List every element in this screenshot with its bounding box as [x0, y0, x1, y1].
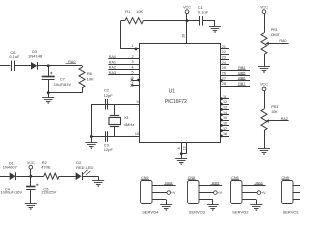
ground under C7	[42, 93, 54, 104]
pin 14 stub	[220, 111, 229, 116]
svg-text:10: 10	[135, 132, 139, 136]
node junction VCC/pin20	[186, 19, 189, 22]
wire: R1 to C1	[143, 20, 199, 22]
ground under C5	[25, 203, 37, 205]
svg-text:SERVO4: SERVO4	[142, 210, 159, 215]
connector CN9 SERVO4	[141, 176, 160, 214]
connector CN8 SERVO3	[187, 176, 205, 214]
wire: VCC junction down to pin 20	[181, 21, 186, 44]
wire/net RB5 from pin 26	[220, 71, 250, 75]
svg-text:VCC: VCC	[260, 6, 268, 10]
svg-text:1N4007: 1N4007	[3, 165, 18, 170]
pin 8 and pin 19 ground stubs	[177, 142, 186, 154]
svg-text:0.1uF: 0.1uF	[9, 54, 20, 59]
svg-text:+V: +V	[171, 191, 176, 195]
svg-text:11: 11	[223, 95, 227, 99]
svg-text:RA0: RA0	[109, 55, 116, 59]
wire/net RA3 to pin 5	[108, 71, 139, 75]
potentiometer PR1 OMIT	[261, 28, 289, 67]
wire/net RA1 to pin 3	[108, 60, 139, 64]
ground under C1	[209, 26, 221, 28]
connector CN6 SERVO2	[231, 176, 250, 214]
wire: R2 to D2	[59, 176, 76, 178]
svg-text:7: 7	[131, 82, 133, 86]
svg-text:1: 1	[131, 44, 133, 48]
wire: CN5 signal pin	[292, 185, 316, 187]
svg-text:RA2: RA2	[109, 66, 116, 70]
wire: CN9 signal pin	[152, 185, 176, 187]
svg-text:470E: 470E	[41, 165, 51, 170]
node dot on pin 1 wire	[135, 48, 138, 51]
capacitor C6 0.1uF	[9, 50, 31, 71]
svg-text:22: 22	[222, 50, 226, 54]
power VCC (top)	[183, 6, 191, 21]
svg-text:C2: C2	[104, 87, 110, 92]
ground wire at CN5	[292, 199, 306, 201]
wire: D2 to ground	[83, 176, 99, 178]
svg-text:19: 19	[183, 146, 187, 150]
connector CN5 SERVO1	[281, 176, 299, 214]
wire/net RB4 from pin 25	[220, 66, 250, 71]
svg-text:PR1: PR1	[271, 28, 278, 32]
svg-text:RA0: RA0	[279, 39, 286, 43]
ground under oscillator rail	[85, 137, 97, 150]
power +V at CN8	[199, 191, 223, 195]
wire: CN8 signal pin	[199, 185, 223, 187]
wire: oscillator left rail	[91, 104, 93, 136]
svg-text:10K: 10K	[87, 77, 94, 82]
net label RB6 at CN6	[254, 182, 263, 186]
power VCC for PR1	[260, 6, 268, 33]
wire/net RB7 from pin 28	[220, 82, 250, 87]
svg-text:+V: +V	[218, 191, 223, 195]
ground symbol at CN8	[207, 204, 219, 206]
svg-text:SERVO1: SERVO1	[283, 210, 300, 215]
svg-text:23: 23	[222, 56, 226, 60]
svg-text:26: 26	[222, 72, 226, 76]
svg-text:RA3: RA3	[109, 71, 116, 75]
pin 17 stub	[220, 127, 229, 132]
wire: pin 10 OSC2 to C3/X1	[91, 132, 139, 136]
node junction VCC bottom	[29, 175, 32, 178]
svg-text:25: 25	[222, 66, 226, 70]
node junction chip ground	[180, 152, 183, 155]
svg-text:3: 3	[132, 60, 134, 64]
pin 22 stub	[220, 50, 229, 54]
ground under PR3	[258, 148, 270, 150]
power VCC (bottom)	[27, 161, 35, 176]
pin 6 no-connect stub	[131, 76, 140, 81]
diode D3 1N4148	[28, 49, 43, 70]
svg-text:RB6: RB6	[256, 182, 263, 186]
wire: pin 9 OSC1 to C2/X1	[91, 100, 139, 104]
svg-text:2: 2	[132, 55, 134, 59]
resistor R2 470E	[41, 160, 59, 179]
svg-text:C7: C7	[60, 76, 66, 81]
svg-text:SERVO3: SERVO3	[189, 210, 206, 215]
ground under chip	[175, 154, 187, 165]
svg-text:RA1: RA1	[109, 60, 116, 64]
svg-text:R6: R6	[87, 71, 93, 76]
svg-text:12pF: 12pF	[104, 93, 114, 98]
svg-text:SERVO2: SERVO2	[232, 210, 249, 215]
capacitor C1 0.1uF	[198, 5, 215, 26]
svg-text:20: 20	[181, 34, 185, 38]
node junction at C7 top	[47, 64, 50, 67]
ground after D2	[92, 180, 104, 182]
power +V at CN6	[242, 191, 266, 195]
svg-text:6: 6	[131, 76, 133, 80]
node dot on pin 27	[220, 79, 223, 82]
svg-text:1000uF/16V: 1000uF/16V	[0, 190, 22, 195]
ground under PR1	[258, 66, 270, 68]
svg-text:17: 17	[223, 127, 227, 131]
svg-text:13: 13	[223, 106, 227, 110]
power +V at CN5	[292, 191, 316, 195]
svg-text:14: 14	[223, 111, 227, 115]
svg-text:PR3: PR3	[271, 105, 278, 109]
svg-text:10uF/63V: 10uF/63V	[54, 82, 72, 87]
svg-text:15: 15	[223, 116, 227, 120]
resistor R6 10K	[79, 66, 94, 93]
svg-text:28: 28	[222, 82, 226, 86]
svg-text:R1: R1	[125, 9, 131, 14]
svg-text:RB6: RB6	[238, 77, 245, 81]
ground symbol at CN9	[160, 204, 172, 206]
node junction oscillator ground	[90, 135, 93, 138]
svg-text:16: 16	[223, 122, 227, 126]
capacitor C7 10uF/63V	[42, 66, 72, 93]
potentiometer PR3 10K	[261, 105, 289, 148]
wire: CN6 signal pin	[242, 185, 266, 187]
wire: D3 to R6 top	[38, 65, 82, 67]
svg-text:24: 24	[222, 61, 226, 65]
pin 13 stub	[220, 106, 229, 111]
net label RB5 at CN8	[210, 182, 219, 186]
capacitor C4/C5 branch	[26, 176, 38, 203]
net label RB4 at CN9	[164, 182, 173, 186]
LED D2 RED LED	[76, 160, 94, 180]
pin 15 stub	[220, 116, 229, 121]
svg-text:5: 5	[132, 71, 134, 75]
svg-text:VCC: VCC	[27, 161, 35, 165]
ground symbol at CN5	[301, 204, 313, 206]
net label RA0	[66, 60, 77, 64]
svg-text:RB5: RB5	[212, 182, 219, 186]
pin 7 no-connect stub	[131, 82, 140, 87]
capacitor label C4 1000uF/16V	[0, 186, 22, 194]
svg-text:1N4148: 1N4148	[28, 54, 43, 59]
capacitor C3 12pF	[104, 131, 114, 152]
node junction at C7 bottom	[47, 91, 50, 94]
diode D1 1N4007	[3, 160, 18, 180]
svg-text:10K: 10K	[271, 110, 278, 114]
resistor R1 10K	[125, 9, 144, 24]
ground symbol at CN6	[250, 204, 262, 206]
wire: left corner down to pin 1	[121, 20, 125, 22]
IC U1 PIC16F72	[140, 44, 221, 143]
crystal X1 4MHz	[109, 104, 134, 136]
ground wire at CN6	[242, 199, 256, 201]
svg-text:9: 9	[137, 100, 139, 104]
wire: left edge input to D1	[0, 176, 10, 178]
svg-text:0.1uF: 0.1uF	[198, 10, 209, 15]
svg-text:PIC16F72: PIC16F72	[165, 99, 187, 105]
pin 21 stub	[220, 45, 229, 49]
svg-text:220/25V: 220/25V	[41, 190, 56, 195]
svg-text:4: 4	[132, 65, 134, 69]
wire/net RA0 to pin 2	[108, 55, 139, 59]
pin 18 stub	[220, 132, 229, 137]
svg-text:8: 8	[177, 147, 181, 149]
svg-text:4MHz: 4MHz	[124, 122, 134, 127]
svg-text:12pF: 12pF	[104, 147, 114, 152]
svg-text:RED LED: RED LED	[76, 165, 93, 170]
svg-text:RB4: RB4	[165, 182, 172, 186]
pin 12 stub	[220, 100, 229, 105]
svg-text:12: 12	[223, 100, 227, 104]
pin 11 stub	[220, 95, 229, 100]
pin 24 stub	[220, 61, 229, 65]
capacitor label C5 220/25V	[41, 186, 56, 194]
svg-text:VCC: VCC	[183, 6, 191, 10]
power +V at CN9	[152, 191, 176, 195]
power VCC for PR3	[260, 83, 268, 109]
wire/net RB6 from pin 27	[220, 77, 250, 81]
pin 16 stub	[220, 122, 229, 127]
svg-text:+V: +V	[261, 191, 266, 195]
svg-text:21: 21	[222, 45, 226, 49]
wire: D1 to R2	[16, 176, 44, 178]
capacitor C2 12pF	[104, 87, 114, 109]
svg-text:OMIT: OMIT	[271, 33, 281, 37]
svg-text:18: 18	[223, 132, 227, 136]
wire: left edge input to C6	[0, 65, 10, 67]
svg-text:10K: 10K	[136, 9, 143, 14]
ground wire at CN9	[152, 199, 166, 201]
wire: bottom rail C7 to R6	[48, 92, 82, 94]
svg-text:X1: X1	[124, 115, 130, 120]
wire/net RA2 to pin 4	[108, 65, 139, 69]
svg-text:RA2: RA2	[281, 117, 288, 121]
ground wire at CN8	[199, 199, 213, 201]
svg-text:U1: U1	[169, 88, 176, 94]
svg-text:VCC: VCC	[260, 83, 268, 87]
pin 23 stub	[220, 56, 229, 60]
